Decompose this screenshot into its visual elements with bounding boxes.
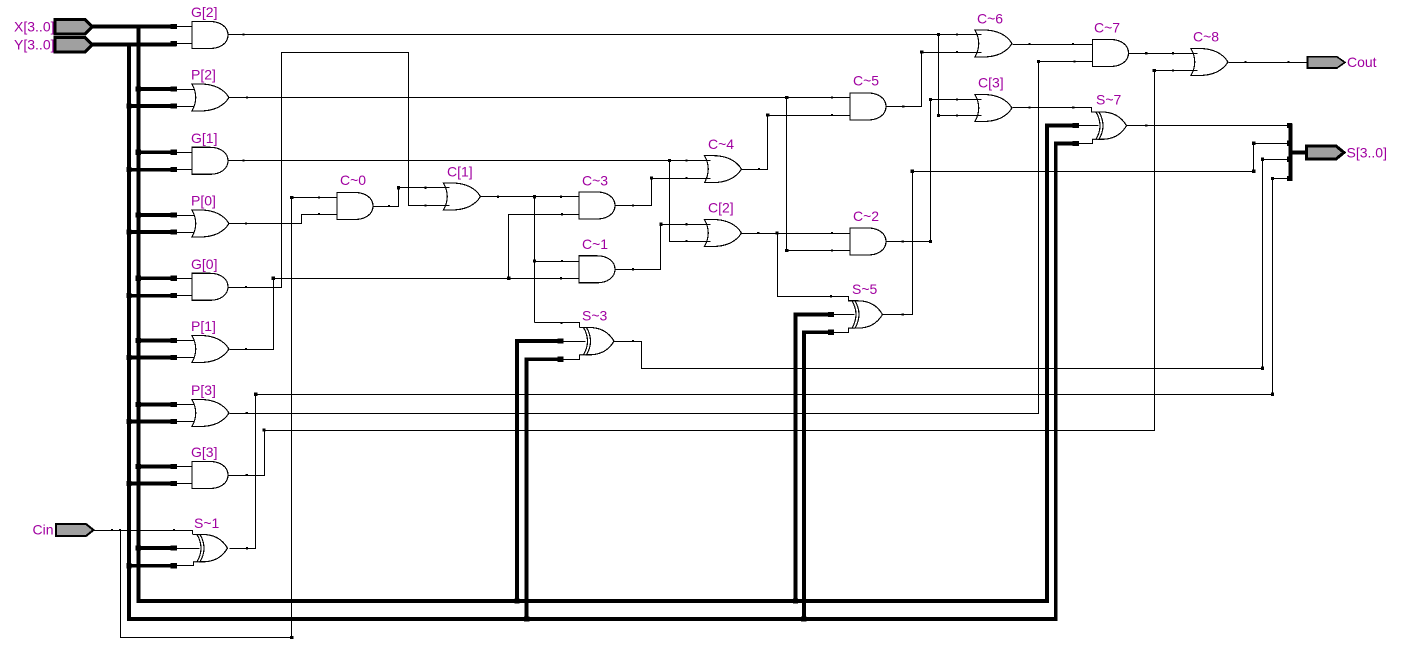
wire X tap stub G[0] pin1: [136, 276, 176, 280]
wire P[2] branch drop to C~2 pin2: [787, 98, 851, 251]
or-gate C[2]: [705, 220, 742, 247]
node Cin tick 1: [111, 529, 113, 531]
net G[2] output to C~6 pin1 with branch to C[3] pin2: [229, 34, 982, 36]
node tick X line: [108, 25, 110, 27]
node tick C~6 pin1 entry: [956, 33, 958, 35]
wire Y bus vertical: [127, 43, 131, 619]
or-gate C~6: [975, 30, 1012, 57]
node corner C~3 riser: [650, 177, 653, 180]
node X tap cap P[0]: [171, 212, 177, 217]
or-gate C[3]: [975, 95, 1012, 122]
svg-text:C[2]: C[2]: [708, 200, 734, 216]
svg-text:P[1]: P[1]: [191, 318, 216, 334]
net C[1] output to C~3 pin1, C~1 pin1 and S~3 top pin: [481, 196, 580, 198]
node corner P[2] branch: [785, 249, 788, 252]
and-gate G[3]: [192, 462, 228, 489]
wire thin pin2 G[1]: [177, 169, 193, 171]
svg-text:C[1]: C[1]: [447, 164, 473, 180]
or-gate P[1]: [192, 336, 229, 363]
node tick C~8 out: [1244, 61, 1246, 63]
node X tap cap P[2]: [171, 86, 177, 91]
node corner S2 top: [1252, 142, 1255, 145]
node corner C~2 riser bottom: [929, 240, 932, 243]
and-gate G[1]: [192, 147, 228, 174]
wire Y bus riser to S~7: [1054, 144, 1058, 621]
node X riser foot S~5: [793, 598, 798, 603]
node Y riser foot S~5: [801, 616, 806, 621]
net C~1 output to C[2] pin1: [616, 225, 711, 270]
node X tap cap G[3]: [171, 464, 177, 469]
node tick S~5 top pin: [830, 295, 832, 297]
svg-text:C~5: C~5: [853, 73, 879, 89]
node tick C~4 out: [758, 168, 760, 170]
node Y tap cap G[1]: [171, 167, 177, 172]
wire C[1] branch drop: [534, 197, 536, 323]
wire X tap stub P[1] pin1: [136, 339, 176, 343]
wire thin pin1 G[0]: [177, 278, 193, 280]
wire thin S~1 bottom pin: [177, 562, 194, 566]
wire thin pin2 P[1]: [177, 357, 199, 359]
node tick C~5 out: [902, 105, 904, 107]
wire thin pin2 G[0]: [177, 295, 193, 297]
net C~0 output to C[1] pin1: [374, 188, 450, 207]
output port S[3..0]: [1307, 146, 1345, 159]
node corner C~4 riser: [766, 113, 769, 116]
svg-text:S~5: S~5: [852, 281, 878, 297]
svg-text:G[3]: G[3]: [191, 444, 217, 460]
net C[2] output to C~2 pin1 with branch to S~5 top pin: [742, 233, 851, 235]
wire Y tap stub P[1] pin2: [127, 356, 177, 360]
node corner C~5 riser: [920, 50, 923, 53]
node tick Y line: [108, 43, 110, 45]
wire C[2] branch drop to S~5 top pin: [778, 234, 849, 301]
node tick C[2] out: [757, 232, 759, 234]
node corner C~1 riser: [659, 223, 662, 226]
node Y tap cap P[1]: [171, 355, 177, 360]
wire Y riser S~5: [802, 332, 806, 621]
node X tap cap S~5: [828, 312, 834, 317]
wire thin pin1 P[3]: [177, 404, 199, 406]
and-gate C~7: [1093, 40, 1129, 67]
S output bus vertical: [1289, 124, 1293, 182]
node Y bus tap P[2]: [126, 103, 131, 108]
wire Y stub S~3 bottom: [525, 357, 564, 361]
net P[2] output to C~5 pin1 with branch to C~2 pin2: [230, 97, 851, 99]
node Y bus tap G[1]: [126, 167, 131, 172]
wire Y bus stub to S~7 pin: [1054, 142, 1076, 146]
wire Y bus bottom horizontal: [127, 617, 1056, 621]
wire P[1] branch riser to C~3 pin2: [509, 215, 580, 279]
node junction P[2] branch: [785, 96, 788, 99]
svg-text:P[0]: P[0]: [191, 193, 216, 209]
node Cin corner top: [290, 196, 293, 199]
node Y bus tap S~1: [126, 563, 131, 568]
wire Y bus horizontal from port: [93, 43, 177, 47]
node X tap cap S~1: [171, 545, 177, 550]
node tick G[3] out: [246, 474, 248, 476]
wire X riser S~3: [515, 341, 519, 603]
node Y bus tap G[0]: [126, 293, 131, 298]
net C~7 output to C~8 pin1: [1129, 53, 1198, 55]
wire thin S~1 mid pin: [177, 548, 200, 550]
wire X bus vertical: [136, 25, 140, 601]
net S~7 output S[3] to output bus: [1127, 125, 1290, 127]
wire X bus stub to S~7 pin: [1045, 124, 1075, 128]
node tick G[1] out: [242, 160, 244, 162]
node tick Cout entry: [1287, 61, 1289, 63]
node tick S~7 top pin: [1072, 106, 1074, 108]
net S~1 output S[0] to output bus: [230, 179, 1290, 549]
wire Y tap stub P[2] pin2: [127, 104, 177, 108]
wire Y tap stub G[1] pin2: [127, 168, 177, 172]
wire Y tap stub S~1 bottom: [127, 564, 177, 568]
net P[3] output to C~7 pin2: [230, 62, 1093, 414]
net C[3] output to S~7 top pin: [1013, 108, 1092, 113]
node junction G[2] branch: [937, 33, 940, 36]
xor-gate S~3: [587, 328, 615, 355]
or-gate C[1]: [444, 183, 481, 210]
node tick C~1 out: [632, 268, 634, 270]
wire thin pin1 P[0]: [177, 215, 199, 217]
node corner S0 riser1: [254, 393, 257, 396]
wire Y thin S~7 bottom pin: [1076, 140, 1093, 144]
node tick C~1 pin2 entry: [560, 277, 562, 279]
wire Cin drop: [121, 198, 338, 638]
node X tap cap S~3: [557, 338, 563, 343]
node tick G[0] out: [245, 286, 247, 288]
wire G[1] branch drop to C[2] pin2: [670, 161, 705, 242]
or-gate P[0]: [192, 210, 229, 237]
node Y tap cap G[0]: [171, 293, 177, 298]
net G[0] output rectangle to C[1] pin2: [229, 53, 450, 288]
svg-text:P[3]: P[3]: [191, 382, 216, 398]
wire X tap stub G[1] pin1: [136, 151, 176, 155]
wire Cin to S~1 top pin: [94, 531, 193, 535]
net C~3 output to C~4 pin2: [616, 179, 711, 206]
node tick C~3 pin2: [561, 213, 563, 215]
node tick C~4 pin2 entry: [685, 177, 687, 179]
node tick C~2 pin1 entry: [831, 232, 833, 234]
node tick C[1] pin2 entry: [424, 204, 426, 206]
wire C[1] branch to S~3 top pin: [535, 323, 580, 328]
svg-text:Cin: Cin: [32, 522, 53, 538]
svg-text:C~6: C~6: [977, 11, 1003, 27]
svg-text:Y[3..0]: Y[3..0]: [14, 37, 54, 53]
node Cin tick 2: [173, 529, 175, 531]
node tick P[3] out: [246, 412, 248, 414]
or-gate P[2]: [192, 84, 229, 111]
node Y bus tap G[3]: [126, 481, 131, 486]
node corner C~2 riser top: [929, 98, 932, 101]
wire X thin S~7 mid pin: [1076, 125, 1099, 127]
svg-text:P[2]: P[2]: [191, 67, 216, 83]
node Y tap cap S~3: [557, 357, 563, 362]
wire X tap stub P[0] pin1: [136, 213, 176, 217]
wire G[1] branch into C[2]: [705, 241, 711, 243]
and-gate G[0]: [192, 273, 228, 300]
node Y tap cap G[3]: [171, 481, 177, 486]
node corner S2 riser2: [1252, 170, 1255, 173]
node X bus tap G[0]: [136, 276, 141, 281]
node tick C~2 out: [902, 240, 904, 242]
and-gate G[2]: [192, 22, 228, 49]
svg-text:C~8: C~8: [1193, 29, 1219, 45]
or-gate C~4: [705, 156, 742, 183]
node tick S~1 out: [246, 547, 248, 549]
svg-text:Cout: Cout: [1347, 54, 1377, 70]
node tick S~3 top pin: [561, 322, 563, 324]
wire Y tap stub P[0] pin2: [127, 230, 177, 234]
node tick C~7 out: [1145, 52, 1147, 54]
node tick C~2 pin2 entry: [831, 249, 833, 251]
node tick S~5 out: [902, 313, 904, 315]
svg-text:C~3: C~3: [582, 173, 608, 189]
node tick C~7 pin1: [1072, 43, 1074, 45]
node tick S~3 out: [632, 340, 634, 342]
wire X bus bottom horizontal: [136, 599, 1047, 603]
wire X stub S~5 mid: [794, 313, 834, 317]
wire X riser S~5: [794, 315, 798, 603]
svg-text:C~7: C~7: [1094, 20, 1120, 36]
wire G[1] line into C~4: [705, 160, 711, 162]
wire thin pin1 P[2]: [177, 89, 199, 91]
wire X stub S~3 mid: [515, 339, 563, 343]
net P[1] output to C~1 pin2 and C~3 pin2: [230, 279, 580, 350]
node X bus tap P[1]: [136, 338, 141, 343]
wire thin pin2 P[0]: [177, 232, 199, 234]
svg-text:S~3: S~3: [582, 308, 608, 324]
svg-text:S~1: S~1: [194, 515, 220, 531]
node corner G[3] riser bottom: [262, 428, 265, 431]
node Cin junction: [119, 529, 121, 531]
node junction C[1] to C~1: [533, 259, 536, 262]
node X riser foot S~3: [514, 598, 519, 603]
wire thin pin1 G[1]: [177, 152, 193, 154]
input port Y[3..0]: [55, 38, 93, 53]
node X bus tap G[3]: [136, 464, 141, 469]
wire Y tap stub G[3] pin2: [127, 482, 177, 486]
node X bus tap S~1: [136, 545, 141, 550]
node X tap cap G[0]: [171, 276, 177, 281]
node Y tap cap P[3]: [171, 419, 177, 424]
node X bus tap P[2]: [136, 86, 141, 91]
node X tap cap P[3]: [171, 402, 177, 407]
and-gate C~3: [579, 192, 615, 219]
node tick C~4 pin1 entry: [685, 160, 687, 162]
node tick P[1] out: [245, 348, 247, 350]
wire Y tap stub P[3] pin2: [127, 420, 177, 424]
node tick C~3 pin1 entry: [560, 196, 562, 198]
or-gate P[3]: [192, 400, 229, 427]
svg-text:S~7: S~7: [1096, 92, 1122, 108]
node corner S0 top: [1271, 177, 1274, 180]
svg-text:C~1: C~1: [582, 236, 608, 252]
node tick C[3] pin2: [956, 114, 958, 116]
or-gate C~8: [1191, 49, 1228, 76]
input port Cin: [56, 524, 94, 536]
node tick C~3 out: [632, 204, 634, 206]
node Y tap cap G[2]: [171, 41, 177, 46]
node X tap cap P[1]: [171, 338, 177, 343]
svg-text:G[1]: G[1]: [191, 130, 217, 146]
node S bus tap S1: [1287, 157, 1292, 162]
wire thin pin2 P[3]: [177, 421, 199, 423]
node corner P[1] riser: [272, 277, 275, 280]
node tick C[3] pin1 entry: [956, 98, 958, 100]
wire thin S~5 mid pin: [834, 314, 855, 316]
net C~4 output to C~5 pin2: [742, 116, 851, 170]
wire C[1] branch to C~1 pin1: [535, 261, 580, 263]
xor-gate S~7: [1099, 112, 1127, 139]
svg-text:X[3..0]: X[3..0]: [14, 19, 54, 35]
node Y tap cap S~5: [828, 330, 834, 335]
node Y tap cap P[2]: [171, 103, 177, 108]
net C~6 output to C~7 pin1: [1013, 44, 1093, 46]
net S~5 output S[2] to output bus: [883, 144, 1290, 315]
net G[1] output to C~4 pin1 with branch to C[2] pin2: [229, 160, 705, 162]
svg-text:C~0: C~0: [340, 172, 366, 188]
and-gate C~0: [337, 193, 373, 220]
node X bus tap G[1]: [136, 150, 141, 155]
wire thin S~3 mid pin: [564, 341, 586, 343]
S output bus stub to port: [1291, 151, 1307, 155]
node S bus tap S3: [1287, 123, 1292, 128]
svg-text:C~2: C~2: [853, 208, 879, 224]
node corner G[3] riser top: [1153, 69, 1156, 72]
node tick C~5 pin2 entry: [831, 114, 833, 116]
wire thin S~3 bottom pin: [564, 355, 580, 360]
node tick G[2] out: [242, 33, 244, 35]
node tick C~1 pin1: [561, 260, 563, 262]
node corner S2 riser1: [911, 170, 914, 173]
wire Y stub S~5 bottom: [802, 330, 834, 334]
node Y bus tap P[3]: [126, 419, 131, 424]
wire X tap stub P[3] pin1: [136, 403, 176, 407]
wire thin pin1 G[2]: [177, 26, 193, 28]
node corner S1 top: [1261, 158, 1264, 161]
node tick C~8 pin2: [1172, 69, 1174, 71]
node X tap cap S~7: [1072, 123, 1078, 128]
node tick C~0 out: [388, 205, 390, 207]
node Y bus tap P[0]: [126, 229, 131, 234]
net C~8 output to Cout port: [1229, 62, 1309, 64]
node Cin corner bottom: [290, 636, 293, 639]
node junction P[1] to C~3: [507, 277, 510, 280]
wire Y tap stub G[0] pin2: [127, 294, 177, 298]
svg-text:S[3..0]: S[3..0]: [1347, 145, 1387, 161]
node Y bus tap P[1]: [126, 355, 131, 360]
node tick C[2] pin2 entry: [685, 240, 687, 242]
node S bus tap S0: [1287, 176, 1292, 181]
node corner P[3] riser: [1037, 60, 1040, 63]
node tick C[2] pin1 entry: [685, 223, 687, 225]
node Y riser foot S~3: [524, 616, 529, 621]
wire thin pin1 G[3]: [177, 466, 193, 468]
node corner S0 riser2: [1271, 393, 1274, 396]
and-gate C~2: [850, 228, 886, 255]
node junction C[1] branch: [533, 195, 536, 198]
svg-text:C~4: C~4: [708, 136, 734, 152]
node corner S1 riser2: [1261, 367, 1264, 370]
node X bus tap P[3]: [136, 402, 141, 407]
xor-gate S~1: [200, 535, 228, 562]
node tick C~6 pin2 entry: [956, 51, 958, 53]
svg-text:C[3]: C[3]: [978, 75, 1004, 91]
node tick C~5 pin1 entry: [831, 96, 833, 98]
node Y tap cap S~1: [171, 563, 177, 568]
node X bus tap P[0]: [136, 212, 141, 217]
wire thin S~5 bottom pin: [834, 329, 849, 333]
node tick C[1] pin1 entry: [424, 187, 426, 189]
node tick C~0 pin2: [318, 213, 320, 215]
node tick C~7 pin2 entry: [1073, 60, 1075, 62]
input port X[3..0]: [55, 20, 93, 35]
xor-gate S~5: [855, 301, 883, 328]
net C~2 output to C[3] pin1: [887, 100, 982, 242]
wire G[2] branch drop to C[3] pin2: [939, 35, 982, 116]
node Y tap cap P[0]: [171, 229, 177, 234]
wire X bus riser to S~7: [1045, 126, 1049, 603]
node tick S~7 out: [1145, 124, 1147, 126]
net C~5 output to C~6 pin2: [887, 53, 982, 107]
node X tap cap G[2]: [171, 24, 177, 29]
node tick C~8 pin1 entry: [1172, 52, 1174, 54]
node corner C~0 to C[1]: [397, 186, 400, 189]
node junction C[2] branch: [776, 231, 779, 234]
wire thin pin1 P[1]: [177, 340, 199, 342]
node X tap cap G[1]: [171, 150, 177, 155]
svg-text:G[2]: G[2]: [191, 4, 217, 20]
net S~3 output S[1] to output bus: [615, 160, 1290, 369]
wire X tap stub G[3] pin1: [136, 465, 176, 469]
output port Cout: [1308, 57, 1346, 68]
and-gate C~5: [850, 93, 886, 120]
and-gate C~1: [579, 256, 615, 283]
node junction G[1] branch: [668, 159, 671, 162]
net G[3] output to C~8 pin2: [229, 71, 1198, 476]
wire X tap stub S~1 mid: [136, 546, 176, 550]
wire thin pin2 G[2]: [177, 43, 193, 45]
node tick C[1] out: [497, 196, 499, 198]
node tick C~0 pin1: [318, 196, 320, 198]
node tick P[2] out: [246, 96, 248, 98]
node Y tap cap S~7: [1072, 141, 1078, 146]
wire Y riser S~3: [525, 359, 529, 621]
node S bus tap S2: [1287, 141, 1292, 146]
wire X tap stub P[2] pin1: [136, 87, 176, 91]
net P[0] output to C~0 pin2: [230, 215, 338, 224]
wire thin pin2 G[3]: [177, 483, 193, 485]
node corner G[2] branch bottom: [937, 114, 940, 117]
wire thin pin2 P[2]: [177, 106, 199, 108]
node tick C~6 out: [1028, 43, 1030, 45]
svg-text:G[0]: G[0]: [191, 256, 217, 272]
node tick P[0] out: [245, 222, 247, 224]
wire X bus horizontal from port: [93, 25, 177, 29]
node tick C[3] out: [1028, 106, 1030, 108]
